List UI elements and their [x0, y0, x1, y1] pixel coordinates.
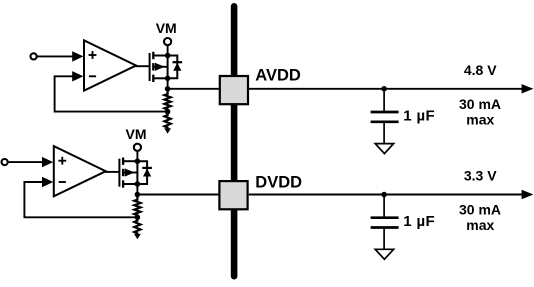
junction: feedback tap node	[135, 215, 141, 221]
body diode of Q2 branch wiring	[137, 161, 147, 184]
wire: op-amp output to MOSFET gate	[105, 171, 120, 173]
svg-text:1 µF: 1 µF	[403, 108, 435, 125]
wire: op-amp output to MOSFET gate	[135, 65, 150, 67]
label DVDD	[255, 173, 302, 191]
junction: Q1 top node	[165, 53, 171, 59]
VM supply terminal circle (Q2)	[134, 144, 141, 151]
op-amp U2 (error amplifier triangle)	[54, 146, 106, 196]
op-amp U2 plus input marking	[58, 157, 66, 165]
wire: regulator 1 output to AVDD pin	[168, 88, 220, 90]
transistor Q1 source stub (bottom)	[153, 77, 167, 79]
transistor Q1 source/drain vertical bar	[167, 56, 169, 79]
wire: input to op-amp noninverting input, with arrowhead	[8, 157, 54, 167]
body diode of Q1 branch wiring	[168, 56, 178, 79]
pin AVDD (package pin box)	[220, 76, 248, 104]
wire: Q2 drain down to output node	[136, 184, 138, 195]
junction: feedback tap node	[165, 109, 171, 115]
op-amp U1 minus input marking	[89, 75, 96, 77]
svg-text:30 mA: 30 mA	[459, 96, 501, 112]
ground symbol	[375, 144, 393, 154]
wire: DVDD supply rail to load	[249, 190, 534, 199]
wire: Q1 drain down to output node	[167, 78, 169, 89]
svg-text:VM: VM	[156, 20, 177, 36]
pin DVDD (package pin box)	[219, 181, 247, 209]
wire: capacitor to ground	[383, 122, 385, 143]
wire: rail node down to capacitor	[383, 89, 385, 112]
resistor R2a (upper feedback divider)	[134, 195, 140, 218]
label capacitor value 1 uF	[403, 213, 435, 230]
op-amp U2 minus input marking	[59, 181, 66, 183]
label capacitor value 1 uF	[403, 108, 435, 125]
label max current 30 mA max	[459, 96, 501, 127]
chip boundary: thick supply bus bar	[231, 3, 238, 280]
wire: input to op-amp noninverting input, with arrowhead	[37, 51, 84, 61]
wire: regulator 2 output to DVDD pin	[137, 194, 219, 196]
label VM (Q2 supply)	[126, 126, 147, 142]
label max current 30 mA max	[459, 202, 501, 233]
transistor Q2 body stub with arrow	[123, 168, 137, 176]
ground symbol	[375, 249, 393, 259]
arrow: divider return (to VM return)	[164, 128, 171, 133]
junction: decoupling cap node	[381, 86, 387, 92]
body diode of Q1 (cathode bar + triangle)	[173, 62, 183, 71]
label 3.3 V output voltage	[464, 168, 497, 184]
transistor Q1 gate bar	[149, 53, 151, 81]
wire: AVDD supply rail to load	[249, 84, 534, 93]
junction: Q2 bottom node	[135, 181, 141, 187]
label 4.8 V output voltage	[464, 62, 497, 78]
input terminal TP1 (open circle)	[30, 53, 36, 59]
transistor Q2 drain stub (top)	[123, 160, 137, 162]
svg-text:3.3 V: 3.3 V	[464, 168, 497, 184]
label AVDD	[255, 67, 301, 85]
junction: Q2 top node	[135, 158, 141, 164]
body diode of Q2 (cathode bar + triangle)	[142, 168, 152, 177]
transistor Q1 body stub with arrow	[153, 63, 167, 71]
wire: rail node down to capacitor	[383, 195, 385, 218]
wire: feedback tap to op-amp inverting input	[55, 71, 168, 112]
resistor R1b (lower feedback divider)	[165, 112, 171, 130]
transistor Q1 channel segments	[152, 52, 154, 82]
svg-text:max: max	[466, 217, 494, 233]
svg-text:30 mA: 30 mA	[459, 202, 501, 218]
junction: regulator 2 output node	[135, 192, 141, 198]
wire: capacitor to ground	[383, 228, 385, 249]
transistor Q2 channel segments	[122, 158, 124, 188]
resistor R2b (lower feedback divider)	[134, 217, 140, 235]
junction: decoupling cap node	[381, 192, 387, 198]
transistor Q2 source/drain vertical bar	[136, 161, 138, 184]
svg-text:1 µF: 1 µF	[403, 213, 435, 230]
op-amp U1 plus input marking	[89, 51, 97, 59]
op-amp U1 (error amplifier triangle)	[84, 40, 136, 90]
VM supply terminal circle (Q1)	[164, 38, 171, 45]
transistor Q1 drain stub (top)	[153, 55, 167, 57]
transistor Q2 source stub (bottom)	[123, 183, 137, 185]
junction: Q1 bottom node	[165, 76, 171, 82]
label VM (Q1 supply)	[156, 20, 177, 36]
arrow: divider return (to VM return)	[134, 234, 141, 239]
capacitor C (3.3 V decoupling) plates	[371, 218, 399, 228]
wire: Q2 source to VM terminal	[136, 151, 138, 161]
resistor R1a (upper feedback divider)	[165, 89, 171, 112]
wire: Q1 source to VM terminal	[167, 45, 169, 55]
transistor Q2 gate bar	[118, 159, 120, 187]
input terminal TP2 (open circle)	[2, 159, 8, 165]
svg-text:AVDD: AVDD	[255, 67, 301, 85]
junction: regulator 1 output node	[165, 86, 171, 92]
svg-text:max: max	[466, 111, 494, 127]
svg-text:VM: VM	[126, 126, 147, 142]
capacitor C (4.8 V decoupling) plates	[371, 112, 399, 122]
svg-text:4.8 V: 4.8 V	[464, 62, 497, 78]
svg-text:DVDD: DVDD	[255, 173, 302, 191]
wire: feedback tap to op-amp inverting input	[24, 177, 137, 218]
